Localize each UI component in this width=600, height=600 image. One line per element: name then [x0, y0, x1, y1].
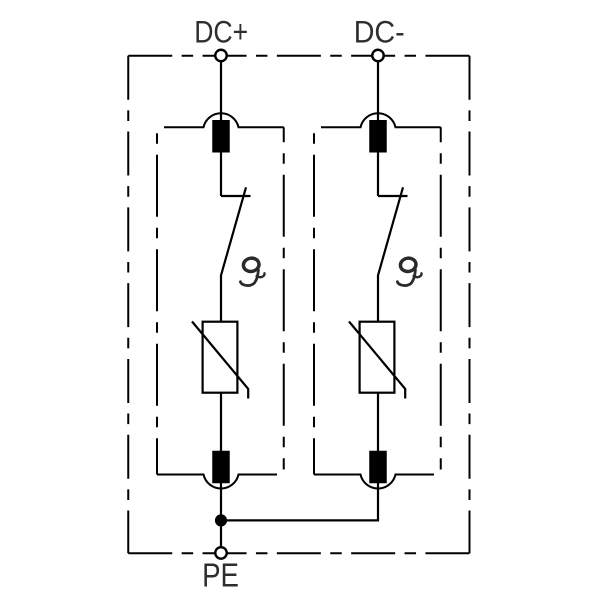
svg-text:DC-: DC-	[354, 14, 405, 50]
contact blade bottom, module 2	[369, 451, 387, 484]
thermal disconnector switch, module 2	[378, 187, 408, 321]
contact blade top, module 1	[212, 120, 230, 153]
varistor, module 2	[349, 322, 405, 399]
wire: bottom contact to PE terminal	[220, 483, 222, 547]
terminal DC+	[215, 50, 227, 62]
theta symbol, module 2	[397, 257, 421, 286]
wire: varistor to bottom contact, module 1	[220, 393, 222, 452]
wire: varistor to bottom contact, module 2	[377, 393, 379, 452]
svg-text:DC+: DC+	[194, 14, 248, 50]
varistor, module 1	[192, 322, 248, 399]
svg-text:PE: PE	[202, 558, 239, 595]
terminal DC-	[372, 50, 384, 62]
junction node on PE bus	[215, 514, 227, 526]
contact blade top, module 2	[369, 120, 387, 153]
enclosure: outer dash-dot border	[128, 56, 469, 554]
wire: DC- terminal down through top contact to disconnector	[377, 62, 379, 196]
contact blade bottom, module 1	[212, 451, 230, 484]
module 1 boundary (dash-dot box with entry bumps)	[157, 113, 284, 488]
wire: module 2 bottom contact to PE bus	[221, 483, 378, 520]
theta symbol, module 1	[240, 257, 264, 286]
thermal disconnector switch, module 1	[221, 187, 251, 321]
wire: DC+ terminal down through top contact to disconnector	[220, 62, 222, 196]
terminal PE	[215, 547, 227, 559]
module 2 boundary (dash-dot box with entry bumps)	[314, 113, 441, 488]
